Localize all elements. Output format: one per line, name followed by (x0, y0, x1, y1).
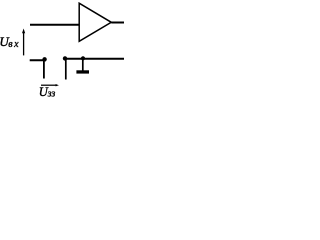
svg-text:зз: зз (47, 88, 56, 97)
svg-text:вх: вх (8, 39, 20, 50)
